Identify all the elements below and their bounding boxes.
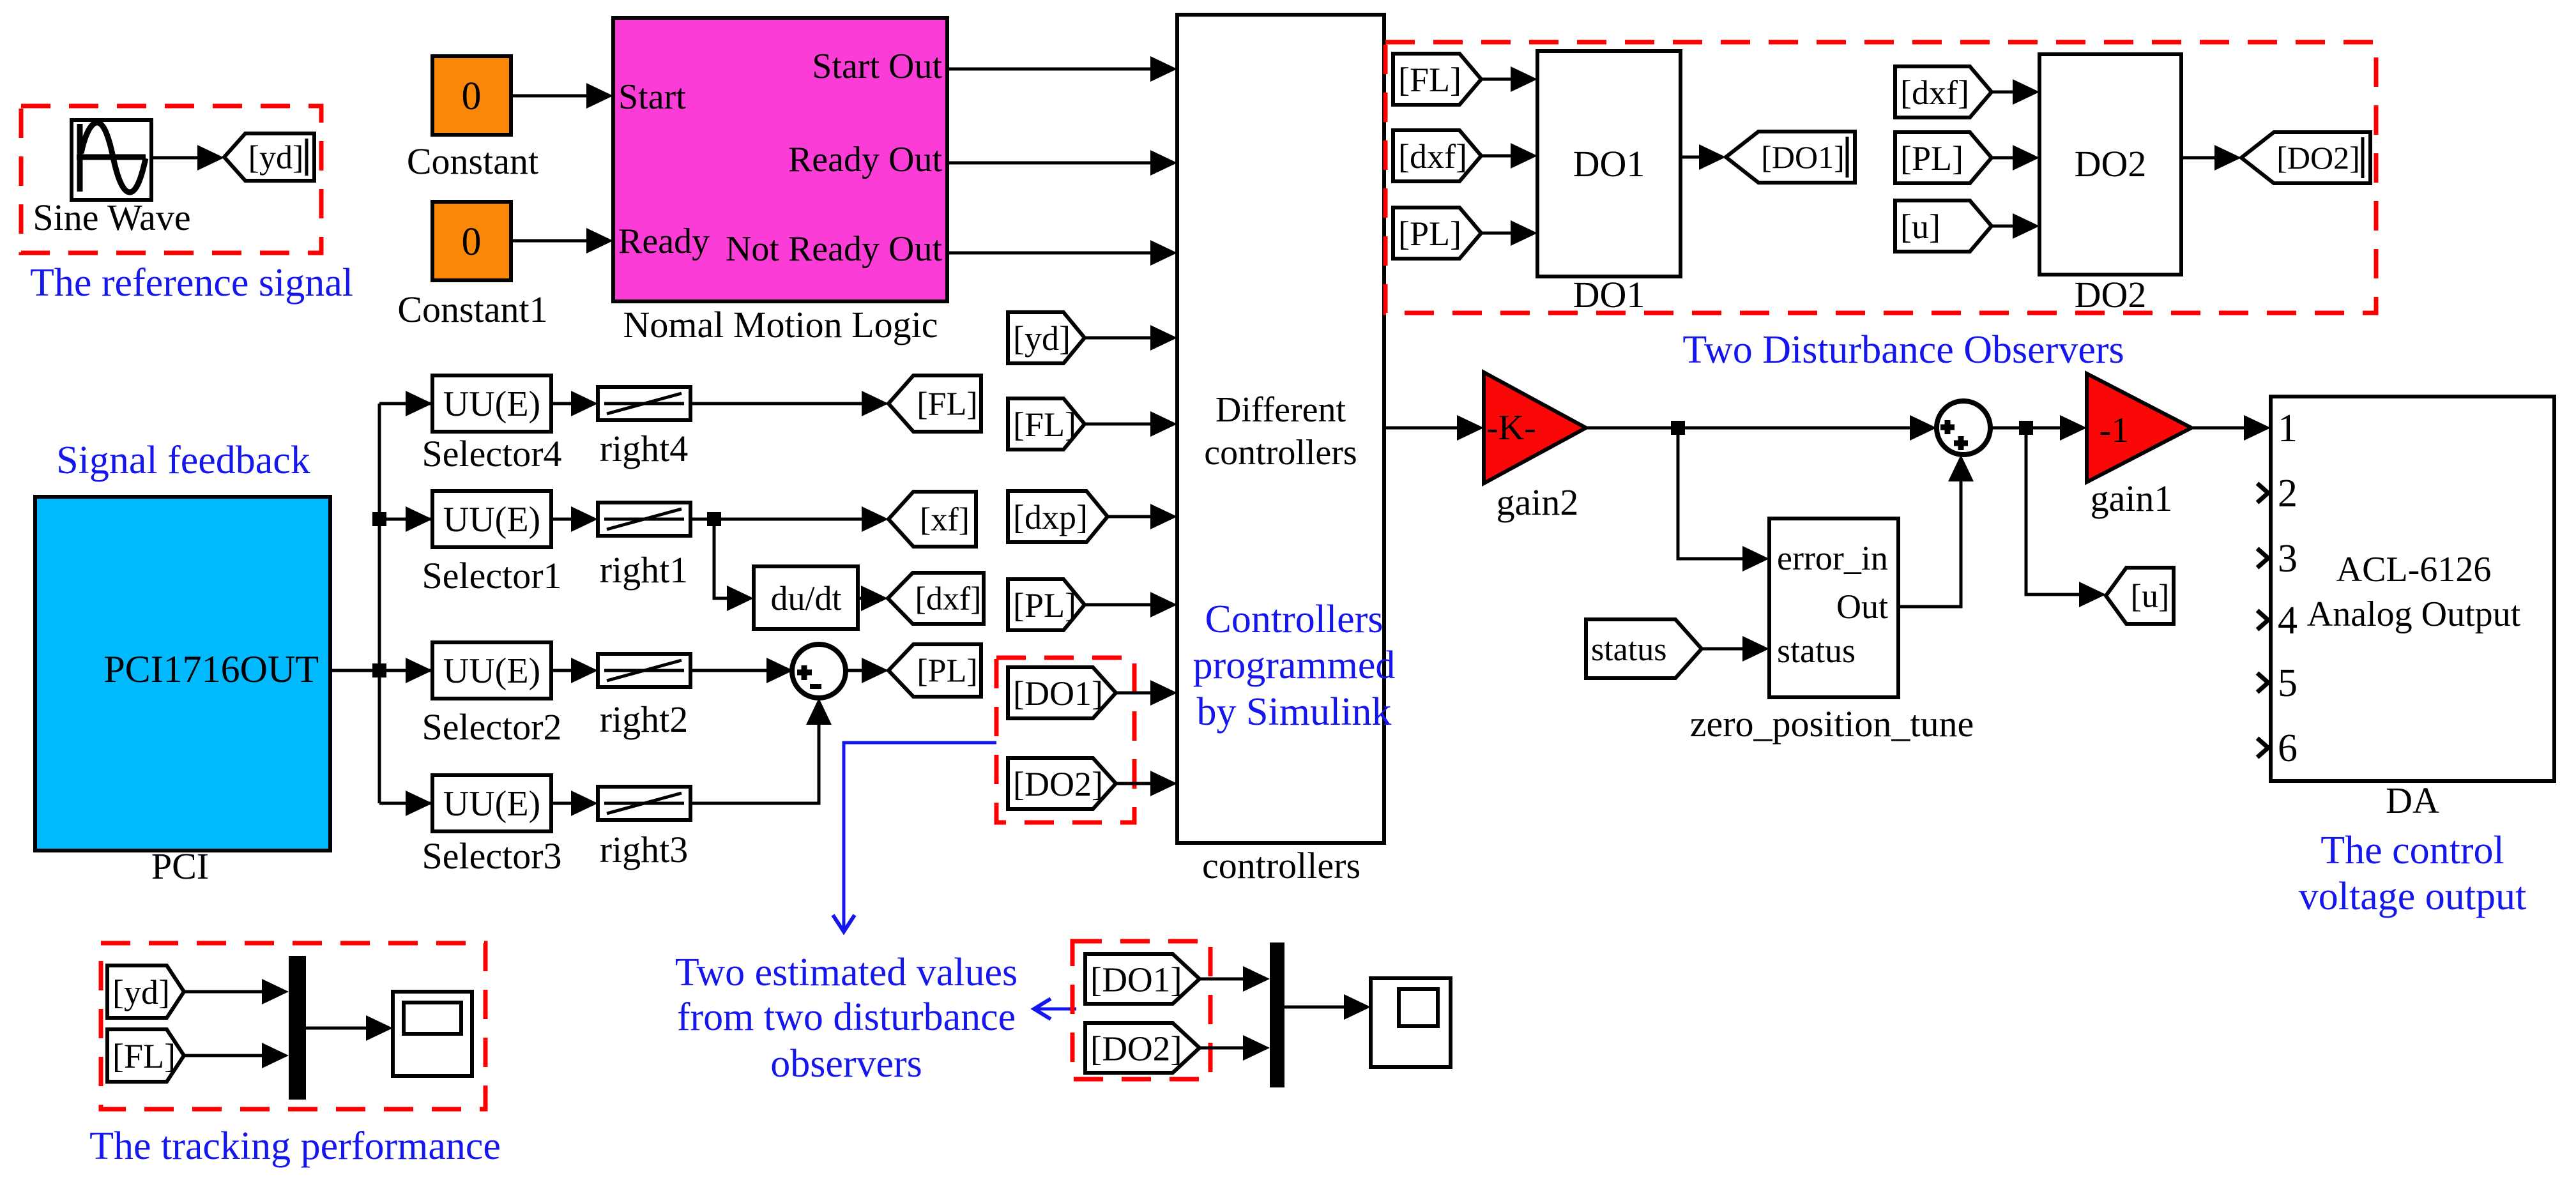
- svg-text:3: 3: [2278, 537, 2298, 580]
- constant block Constant: [432, 56, 511, 135]
- label Nomal Motion Logic: [623, 304, 938, 345]
- svg-text:[DO1]: [DO1]: [1090, 960, 1182, 999]
- junction at selector2 branch: [372, 663, 386, 677]
- svg-text:Ready Out: Ready Out: [788, 140, 943, 179]
- svg-text:6: 6: [2278, 727, 2298, 770]
- svg-text:-1: -1: [2100, 411, 2130, 450]
- wire branch to error_in: [1678, 428, 1769, 572]
- wire right3 to sum: [690, 698, 832, 803]
- port chevron 6: [2257, 738, 2268, 757]
- label right4: [600, 428, 689, 469]
- wire FL to controllers: [1085, 411, 1177, 437]
- scope block scope2: [1371, 978, 1451, 1067]
- wire sum2 to gain1: [1990, 415, 2087, 441]
- wire dxf to DO2: [1992, 79, 2039, 105]
- label gain2: [1497, 481, 1579, 523]
- svg-text:status: status: [1591, 632, 1666, 668]
- label Selector1: [422, 555, 561, 596]
- svg-text:Not Ready Out: Not Ready Out: [726, 229, 943, 269]
- svg-text:gain2: gain2: [1497, 481, 1579, 523]
- svg-text:Selector3: Selector3: [422, 835, 561, 877]
- svg-text:[yd]: [yd]: [248, 140, 304, 176]
- label PCI: [151, 845, 209, 887]
- svg-text:[xf]: [xf]: [920, 502, 970, 538]
- svg-text:Ready: Ready: [618, 222, 710, 261]
- annotation: Two estimated values from two disturbance observers: [675, 951, 1017, 1086]
- svg-text:[u]: [u]: [2131, 579, 2170, 615]
- wire PL to DO2: [1992, 145, 2039, 170]
- label DA: [2386, 780, 2439, 821]
- wire branch to u goto: [2026, 428, 2106, 607]
- label DO1: [1573, 274, 1645, 315]
- svg-text:voltage output: voltage output: [2299, 875, 2526, 918]
- svg-text:right4: right4: [600, 428, 689, 469]
- svg-text:[FL]: [FL]: [112, 1037, 176, 1075]
- wire gain1 to DA: [2191, 415, 2271, 441]
- wire Start Out to controllers: [947, 56, 1177, 82]
- svg-text:[PL]: [PL]: [1013, 586, 1076, 624]
- wire mux1 to scope1: [306, 1015, 393, 1041]
- port chevron 5: [2257, 673, 2268, 692]
- annotation box: tracking performance group: [101, 943, 485, 1109]
- from tag [yd] into controllers: [1008, 312, 1085, 363]
- from tag [FL] to DO1: [1393, 54, 1481, 105]
- svg-text:Start: Start: [618, 77, 686, 117]
- annotation: The tracking performance: [89, 1124, 501, 1168]
- observer block DO1: [1537, 51, 1680, 276]
- annotation arrow from DO tags to text: [833, 743, 996, 932]
- label Selector3: [422, 835, 561, 877]
- svg-text:[PL]: [PL]: [917, 653, 977, 690]
- from tag [yd] bottom: [107, 965, 184, 1018]
- svg-text:UU(E): UU(E): [443, 651, 540, 691]
- svg-text:[yd]: [yd]: [112, 973, 170, 1011]
- subsystem block zero_position_tune: [1769, 519, 1898, 697]
- svg-text:[dxp]: [dxp]: [1013, 498, 1088, 536]
- junction at selector1 branch: [372, 512, 386, 526]
- svg-text:Two Disturbance Observers: Two Disturbance Observers: [1682, 328, 2124, 372]
- svg-text:DO1: DO1: [1573, 274, 1645, 315]
- svg-text:The tracking performance: The tracking performance: [89, 1124, 501, 1168]
- svg-text:2: 2: [2278, 472, 2298, 515]
- goto tag [FL] upper: [888, 375, 981, 432]
- svg-text:by Simulink: by Simulink: [1197, 690, 1392, 734]
- wire yd to mux1: [184, 979, 289, 1004]
- saturation block right4: [598, 387, 690, 420]
- svg-text:Selector2: Selector2: [422, 706, 561, 748]
- annotation box: DO1 DO2 estimated values: [1072, 941, 1210, 1079]
- wire u to DO2: [1992, 213, 2039, 239]
- goto tag [PL] left: [888, 644, 981, 697]
- svg-text:The control: The control: [2321, 829, 2504, 872]
- wire DO1 to DO1 goto: [1680, 144, 1726, 170]
- svg-text:programmed: programmed: [1193, 644, 1396, 687]
- label right3: [600, 829, 689, 870]
- annotation: The reference signal: [30, 261, 353, 305]
- wire right2 to sum: [690, 658, 793, 683]
- sum block plus-minus: [792, 644, 846, 698]
- goto tag [dxf]: [888, 573, 984, 624]
- port chevron 3: [2257, 549, 2268, 568]
- from tag [DO1] into controllers: [1008, 667, 1116, 718]
- svg-text:The reference signal: The reference signal: [30, 261, 353, 305]
- from tag [dxp] into controllers: [1008, 491, 1108, 542]
- svg-text:DO1: DO1: [1573, 143, 1645, 185]
- annotation: Signal feedback: [56, 439, 310, 482]
- saturation block right3: [598, 787, 690, 820]
- gain block gain2: [1484, 372, 1586, 483]
- svg-text:0: 0: [462, 220, 482, 264]
- svg-text:[FL]: [FL]: [917, 386, 977, 423]
- svg-text:[dxf]: [dxf]: [1398, 137, 1467, 176]
- wire Selector1 to right1: [551, 506, 598, 532]
- output block DA ACL-6126: [2271, 397, 2554, 781]
- from tag [DO2] bottom: [1085, 1023, 1200, 1073]
- wire Selector4 to right4: [551, 391, 598, 416]
- svg-text:[DO1]: [DO1]: [1761, 139, 1845, 175]
- label Constant1: [397, 289, 547, 330]
- svg-text:DO2: DO2: [2075, 274, 2147, 315]
- wire DO2 to mux2: [1200, 1035, 1270, 1061]
- label right1: [600, 549, 689, 591]
- wire DO2 to controllers: [1116, 771, 1177, 796]
- label gain1: [2091, 478, 2173, 519]
- mux block mux1: [289, 956, 306, 1100]
- svg-text:0: 0: [462, 75, 482, 118]
- svg-text:Selector4: Selector4: [422, 433, 561, 474]
- svg-text:DA: DA: [2386, 780, 2439, 821]
- svg-text:Sine Wave: Sine Wave: [33, 197, 190, 238]
- wire DO1 to controllers: [1116, 680, 1177, 706]
- svg-text:1: 1: [2278, 407, 2298, 450]
- label zero_position_tune: [1690, 703, 1974, 745]
- wire DO2 to DO2 goto: [2181, 145, 2241, 170]
- subsystem block Nomal Motion Logic: [613, 18, 947, 301]
- gain block gain1: [2087, 374, 2191, 482]
- svg-text:ACL-6126: ACL-6126: [2336, 550, 2492, 589]
- junction after gain2: [1671, 421, 1685, 435]
- svg-text:status: status: [1777, 632, 1856, 670]
- label DO2: [2075, 274, 2147, 315]
- svg-text:observers: observers: [770, 1042, 922, 1086]
- from tag [PL] into controllers: [1008, 579, 1085, 630]
- svg-text:4: 4: [2278, 599, 2298, 642]
- saturation block right1: [598, 503, 690, 536]
- svg-text:gain1: gain1: [2091, 478, 2173, 519]
- svg-text:right3: right3: [600, 829, 689, 870]
- svg-text:Start Out: Start Out: [812, 47, 942, 86]
- annotation: Two Disturbance Observers: [1682, 328, 2124, 372]
- sine wave source block: [72, 120, 151, 200]
- goto tag [DO1]: [1726, 132, 1855, 183]
- wire FL to mux1: [184, 1043, 289, 1068]
- observer block DO2: [2039, 54, 2181, 275]
- saturation block right2: [598, 654, 690, 687]
- from tag [PL] to DO1: [1393, 208, 1481, 259]
- svg-text:error_in: error_in: [1777, 539, 1888, 577]
- svg-text:[DO2]: [DO2]: [1013, 765, 1103, 803]
- selector block Selector4: [432, 375, 551, 432]
- wire Out to sum2: [1898, 455, 1974, 607]
- goto tag [xf]: [888, 492, 976, 547]
- label Selector4: [422, 433, 561, 474]
- annotation: The control voltage output: [2299, 829, 2526, 918]
- svg-text:[DO2]: [DO2]: [1090, 1029, 1182, 1068]
- selector block Selector1: [432, 491, 551, 547]
- goto tag [DO2]: [2241, 132, 2370, 183]
- svg-text:Nomal Motion Logic: Nomal Motion Logic: [623, 304, 938, 345]
- junction at right1 branch: [707, 512, 721, 526]
- wire controllers to gain2: [1384, 415, 1484, 441]
- wire PL to controllers: [1085, 592, 1177, 617]
- wire Constant1 to Ready: [511, 228, 613, 254]
- svg-text:Constant: Constant: [407, 140, 538, 182]
- svg-text:[PL]: [PL]: [1398, 215, 1461, 253]
- label Sine Wave: [33, 197, 190, 238]
- from tag [dxf] to DO1: [1393, 130, 1481, 181]
- wire Not Ready Out to controllers: [947, 240, 1177, 266]
- svg-text:controllers: controllers: [1204, 433, 1357, 473]
- selector block Selector2: [432, 642, 551, 699]
- from tag [PL] to DO2: [1895, 132, 1992, 183]
- annotation box: the reference signal group: [21, 106, 321, 253]
- svg-text:-K-: -K-: [1486, 408, 1536, 448]
- wire PL to DO1: [1481, 220, 1537, 246]
- wire du/dt to dxf goto: [858, 586, 888, 611]
- svg-text:[u]: [u]: [1900, 208, 1940, 246]
- wire right1 to xf goto: [690, 506, 888, 532]
- annotation box around DO1 DO2 from tags: [996, 658, 1134, 822]
- wire gain2 to sum2: [1586, 415, 1937, 441]
- svg-text:[dxf]: [dxf]: [1900, 73, 1969, 112]
- label right2: [600, 699, 689, 740]
- svg-text:PCI1716OUT: PCI1716OUT: [103, 648, 319, 690]
- svg-text:du/dt: du/dt: [770, 579, 841, 617]
- wire right4 to FL goto: [690, 391, 888, 416]
- wire yd to controllers: [1085, 325, 1177, 351]
- subsystem block Different controllers: [1177, 15, 1384, 843]
- svg-text:UU(E): UU(E): [443, 500, 540, 540]
- label Constant: [407, 140, 538, 182]
- constant block Constant1: [432, 202, 511, 280]
- annotation arrow pointing to text: [1034, 999, 1076, 1019]
- svg-text:Different: Different: [1216, 390, 1346, 430]
- port chevron 2: [2257, 483, 2268, 503]
- from tag [u] to DO2: [1895, 201, 1992, 252]
- from tag [FL] bottom: [107, 1029, 184, 1082]
- svg-text:Analog Output: Analog Output: [2307, 594, 2521, 634]
- wire DO1 to mux2: [1200, 966, 1270, 992]
- from tag [dxf] to DO2: [1895, 66, 1992, 117]
- wire sum to PL goto: [846, 658, 888, 683]
- label controllers: [1202, 845, 1360, 886]
- sum block plus-plus: [1937, 401, 1990, 455]
- svg-text:DO2: DO2: [2075, 143, 2147, 185]
- wire Selector3 to right3: [551, 791, 598, 816]
- svg-text:Two estimated values: Two estimated values: [675, 951, 1017, 994]
- wire FL to DO1: [1481, 66, 1537, 92]
- svg-text:PCI: PCI: [151, 845, 209, 887]
- from tag status: [1586, 619, 1702, 678]
- svg-text:[PL]: [PL]: [1900, 139, 1963, 178]
- selector block Selector3: [432, 775, 551, 831]
- goto tag [yd]: [224, 133, 314, 181]
- svg-text:[FL]: [FL]: [1013, 405, 1076, 444]
- derivative block du/dt: [754, 566, 858, 629]
- scope block scope1: [393, 992, 472, 1076]
- annotation: Controllers programmed by Simulink: [1193, 598, 1396, 734]
- wire mux2 to scope2: [1284, 994, 1371, 1020]
- svg-text:5: 5: [2278, 662, 2298, 705]
- svg-text:Constant1: Constant1: [397, 289, 547, 330]
- svg-text:zero_position_tune: zero_position_tune: [1690, 703, 1974, 745]
- wire dxp to controllers: [1108, 504, 1177, 529]
- mux block mux2: [1270, 942, 1284, 1087]
- wire status to zero_position_tune: [1702, 636, 1769, 662]
- svg-text:from two disturbance: from two disturbance: [677, 995, 1016, 1039]
- input block PCI1716OUT: [35, 497, 330, 851]
- svg-text:Signal feedback: Signal feedback: [56, 439, 310, 482]
- junction after sum2: [2019, 421, 2033, 435]
- from tag [DO1] bottom: [1085, 954, 1200, 1004]
- wire Selector2 to right2: [551, 658, 598, 683]
- from tag [DO2] into controllers: [1008, 758, 1116, 809]
- goto tag [u]: [2106, 568, 2174, 624]
- svg-text:Selector1: Selector1: [422, 555, 561, 596]
- annotation box: two disturbance observers: [1385, 42, 2376, 313]
- svg-text:[dxf]: [dxf]: [915, 581, 982, 617]
- svg-text:[yd]: [yd]: [1013, 319, 1071, 358]
- svg-text:[FL]: [FL]: [1398, 61, 1461, 99]
- port chevron 4: [2257, 610, 2268, 630]
- svg-text:Out: Out: [1836, 587, 1888, 626]
- svg-text:UU(E): UU(E): [443, 384, 540, 424]
- wire Constant to Start: [511, 83, 613, 109]
- svg-text:[DO2]: [DO2]: [2276, 140, 2360, 176]
- svg-text:Controllers: Controllers: [1205, 598, 1383, 641]
- wire Ready Out to controllers: [947, 150, 1177, 176]
- svg-text:right2: right2: [600, 699, 689, 740]
- wire sine wave to yd goto: [151, 145, 224, 170]
- svg-text:controllers: controllers: [1202, 845, 1360, 886]
- wire right1 branch to du/dt: [714, 519, 754, 611]
- wire dxf to DO1: [1481, 143, 1537, 169]
- wire PCI output trunk: [330, 391, 432, 816]
- svg-text:UU(E): UU(E): [443, 784, 540, 824]
- svg-text:right1: right1: [600, 549, 689, 591]
- from tag [FL] into controllers: [1008, 398, 1085, 450]
- svg-text:[DO1]: [DO1]: [1013, 674, 1103, 713]
- label Selector2: [422, 706, 561, 748]
